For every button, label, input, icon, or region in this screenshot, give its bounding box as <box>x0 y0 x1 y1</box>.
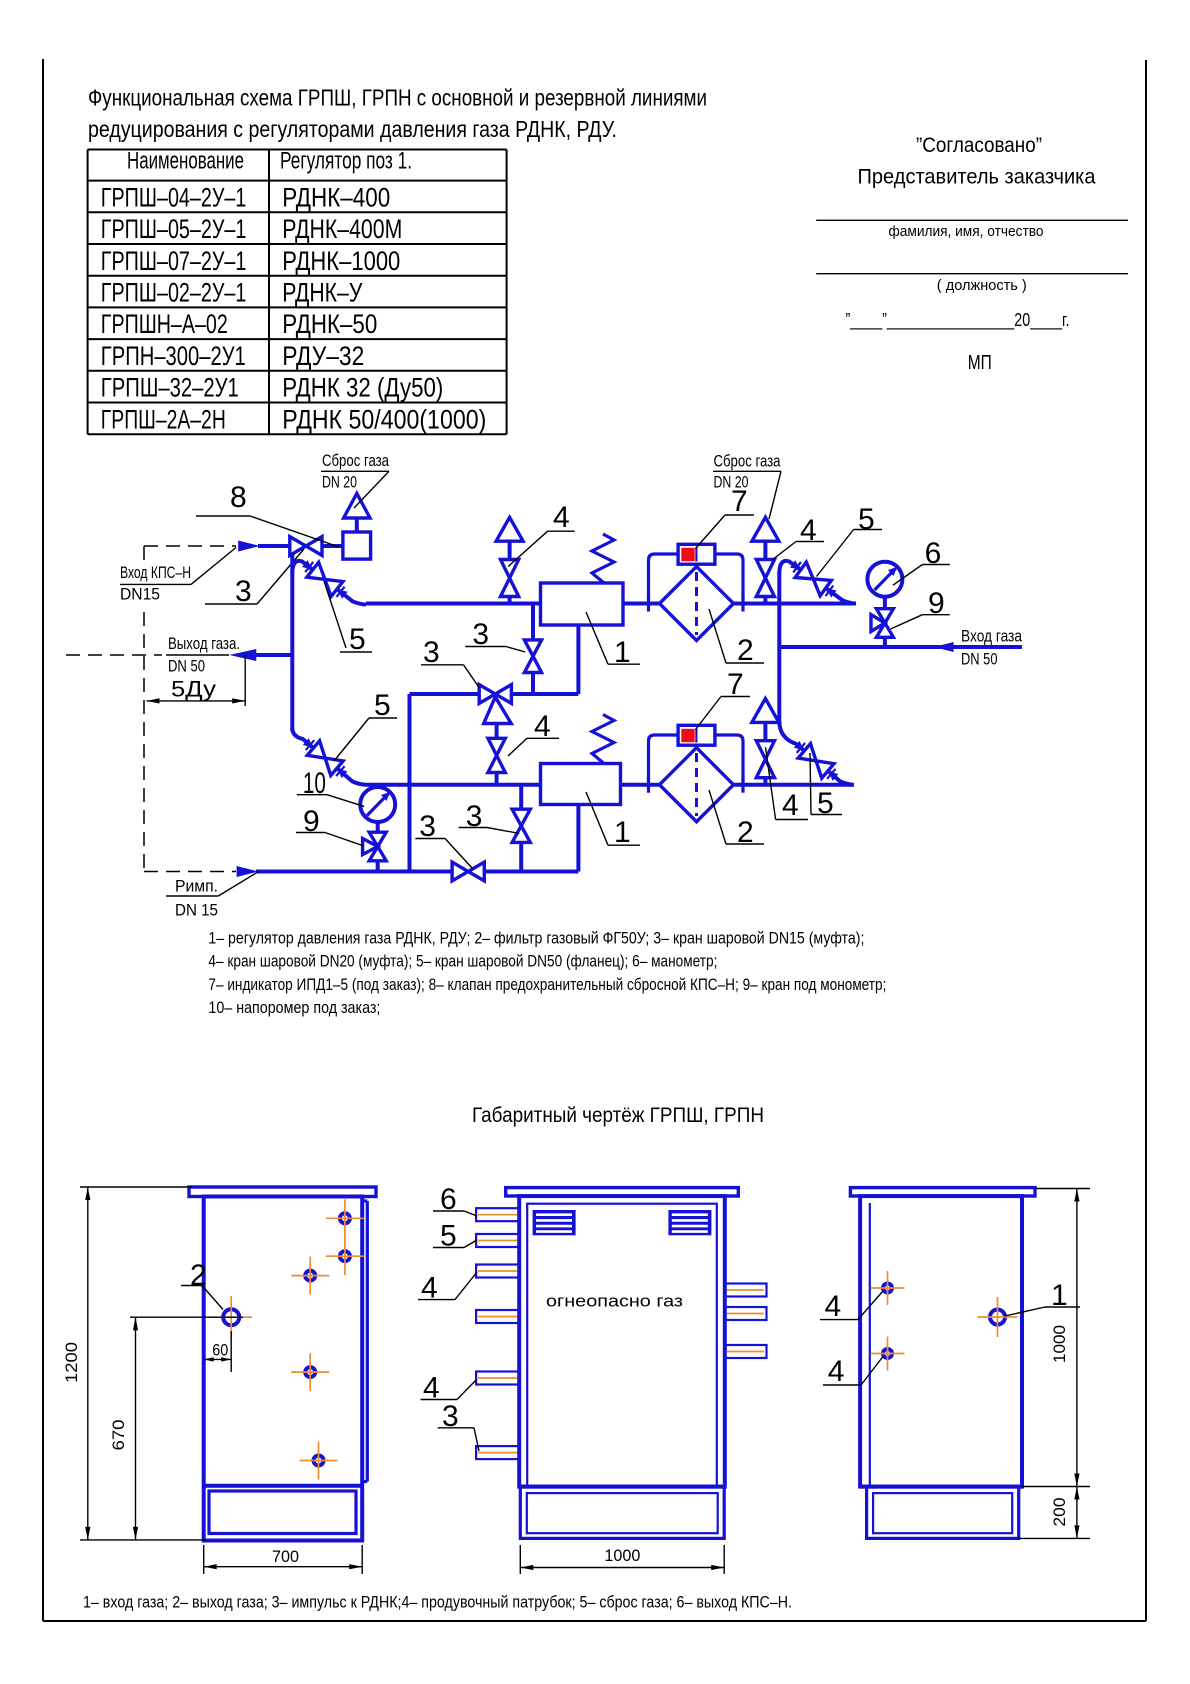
cabinet2 base divider <box>519 1485 725 1489</box>
wire valve4 chain <box>495 724 499 739</box>
svg-text:( должность ): ( должность ) <box>937 278 1027 294</box>
flow arrow impulse <box>237 866 259 877</box>
vent triangle C <box>752 699 779 723</box>
valve 4 B <box>756 560 774 579</box>
regulator 1 lower box <box>541 764 621 805</box>
svg-text:”____”________________20____г.: ”____”________________20____г. <box>846 309 1070 331</box>
svg-text:Представитель заказчика: Представитель заказчика <box>858 166 1096 189</box>
indicator 7 upper divider <box>695 548 697 562</box>
svg-text:ГРПШН–А–02: ГРПШН–А–02 <box>101 309 228 339</box>
svg-text:4: 4 <box>782 789 799 822</box>
wire bottom line <box>256 870 578 874</box>
svg-text:DN15: DN15 <box>120 586 160 604</box>
svg-text:ГРПН–300–2У1: ГРПН–300–2У1 <box>101 341 246 371</box>
svg-text:DN 50: DN 50 <box>168 658 205 676</box>
callout 2 lower <box>726 843 764 845</box>
svg-text:DN 50: DN 50 <box>961 651 998 669</box>
wire top line left <box>366 602 540 606</box>
svg-text:РДНК 32 (Ду50): РДНК 32 (Ду50) <box>282 373 443 403</box>
cabinet3 hole 4a <box>883 1284 892 1293</box>
svg-text:РДУ–32: РДУ–32 <box>282 341 364 371</box>
svg-text:1000: 1000 <box>604 1547 640 1565</box>
callout 3 vert upper <box>465 646 506 648</box>
wire cross riser <box>408 694 412 872</box>
wire left riser <box>290 553 294 731</box>
callout 5 lower-left <box>369 717 397 719</box>
cabinet3 base outer <box>867 1487 1019 1539</box>
valve 4 chain <box>488 738 505 755</box>
border frame left <box>42 59 44 1621</box>
dimension 1000 cabinet2 <box>519 1545 521 1574</box>
vent assembly B stub <box>763 597 767 604</box>
svg-text:1: 1 <box>614 816 631 849</box>
svg-text:1000: 1000 <box>1051 1325 1069 1363</box>
cabinet2 louver right <box>668 1210 711 1235</box>
filter 2 lower diamond <box>660 748 734 822</box>
svg-text:Функциональная схема ГРПШ, ГРП: Функциональная схема ГРПШ, ГРПН с основн… <box>88 85 707 111</box>
filter 2 lower bypass <box>649 735 744 781</box>
valve 3 bottom <box>452 862 468 881</box>
svg-text:Наименование: Наименование <box>127 148 244 175</box>
svg-text:Габаритный чертёж ГРПШ, ГРПН: Габаритный чертёж ГРПШ, ГРПН <box>472 1103 764 1127</box>
svg-text:4: 4 <box>825 1290 842 1323</box>
cabinet2 louver left <box>533 1210 576 1235</box>
cabinet1 door edge <box>366 1201 369 1482</box>
valve 3 vertical lower <box>512 809 530 826</box>
callout 2 cabinet1 <box>181 1285 202 1287</box>
manometer 10 <box>360 787 395 822</box>
border frame right <box>1145 60 1147 1621</box>
wire regulator2 outlet drop <box>576 805 580 872</box>
wire manometer 6 stem <box>883 596 887 647</box>
valve 3 vertical upper <box>524 640 541 656</box>
svg-text:ГРПШ–02–2У–1: ГРПШ–02–2У–1 <box>101 278 247 308</box>
cabinet2 base inner <box>527 1493 718 1533</box>
dimension 5Du <box>244 655 246 706</box>
callout 8 <box>196 515 250 517</box>
indicator 7 upper box <box>678 544 715 564</box>
mask Vhod KPS-N <box>114 560 196 604</box>
flow arrow KPS inlet <box>238 541 260 552</box>
svg-text:РДНК 50/400(1000): РДНК 50/400(1000) <box>282 404 486 434</box>
cabinet1 base divider <box>204 1484 363 1488</box>
valve 5 lower-right flanged <box>779 721 854 785</box>
svg-text:5: 5 <box>349 623 366 656</box>
svg-text:фамилия, имя, отчество: фамилия, имя, отчество <box>889 224 1044 240</box>
vent assembly C stub <box>763 778 767 785</box>
valve 3 KPS ball valve <box>290 537 306 556</box>
svg-text:ГРПШ–04–2У–1: ГРПШ–04–2У–1 <box>101 182 247 212</box>
cabinet3 hinge line <box>869 1203 871 1487</box>
filter 2 lower dash <box>695 753 698 816</box>
wire KPS vent stub <box>355 517 359 532</box>
svg-text:10– напоромер под заказ;: 10– напоромер под заказ; <box>208 998 380 1017</box>
border frame bottom <box>43 1620 1146 1622</box>
svg-text:ГРПШ–32–2У1: ГРПШ–32–2У1 <box>101 373 239 403</box>
cabinet1 hole low <box>314 1456 324 1466</box>
callout 3 bottom <box>415 838 445 840</box>
valve 9 right <box>876 609 893 623</box>
wire top line filter to end <box>734 602 857 606</box>
spring regulator 1 lower <box>592 715 614 764</box>
svg-text:1– вход газа; 2– выход газа; 3: 1– вход газа; 2– выход газа; 3– импульс … <box>83 1593 792 1612</box>
wire input line <box>779 645 1022 649</box>
svg-text:3: 3 <box>423 636 440 669</box>
cabinet1 hole 2 big <box>223 1309 239 1325</box>
svg-text:4: 4 <box>553 501 570 534</box>
wire KPS line <box>258 544 344 548</box>
flange tick lower right <box>741 777 744 793</box>
svg-text:РДНК–400М: РДНК–400М <box>282 214 402 244</box>
svg-text:4– кран шаровой DN20 (муфта);: 4– кран шаровой DN20 (муфта); 5– кран ша… <box>208 952 717 971</box>
wire middle line left <box>366 783 540 787</box>
wire regulator1 to filter <box>623 602 660 606</box>
callout 5 lower-right <box>810 753 811 815</box>
wire dashed outlet <box>66 654 162 656</box>
svg-text:Вход КПС–Н: Вход КПС–Н <box>120 564 191 582</box>
flange tick lower left <box>647 777 650 793</box>
svg-text:4: 4 <box>828 1355 845 1388</box>
svg-text:670: 670 <box>110 1420 128 1451</box>
svg-text:DN 15: DN 15 <box>175 902 218 920</box>
relief valve KPS-N box 8 <box>343 532 371 559</box>
valve 4 A <box>501 560 519 579</box>
callout 3 vert lower <box>459 827 487 829</box>
wire dashed KPS inlet <box>144 545 236 547</box>
valve 4 C <box>756 741 774 760</box>
callout 3 upper-left <box>205 603 257 605</box>
cabinet2 cap <box>506 1188 739 1196</box>
valve 9 left <box>369 832 386 846</box>
callout 9 left <box>296 832 325 834</box>
svg-text:редуцирования с регуляторами д: редуцирования с регуляторами давления га… <box>88 116 617 142</box>
wire regulator1 drop <box>531 604 535 641</box>
callout 5 cabinet2 <box>433 1247 464 1249</box>
svg-text:200: 200 <box>1051 1498 1069 1527</box>
callout 4 B <box>796 541 824 543</box>
dimension 1000 cabinet3 <box>1035 1188 1090 1190</box>
svg-text:5: 5 <box>858 503 875 536</box>
callout 4 lower-right <box>766 747 776 819</box>
wire valve3 lower drop <box>519 785 523 810</box>
svg-text:60: 60 <box>212 1342 228 1360</box>
callout 10 <box>297 794 327 796</box>
cabinet3 cap <box>850 1188 1035 1196</box>
vent triangle A <box>496 517 523 541</box>
svg-text:DN 20: DN 20 <box>714 474 749 492</box>
callout 1 upper <box>608 663 640 665</box>
svg-text:5: 5 <box>374 689 391 722</box>
svg-text:1200: 1200 <box>63 1342 81 1383</box>
cabinet2 body inner <box>527 1204 717 1487</box>
callout 4 chain <box>527 737 559 739</box>
dimension 1200 <box>80 1186 192 1188</box>
svg-text:РДНК–400: РДНК–400 <box>282 182 390 212</box>
svg-text:2: 2 <box>737 634 754 667</box>
dimension 200 cabinet3 <box>1019 1537 1090 1539</box>
callout 4b cabinet2 <box>421 1399 457 1401</box>
svg-text:Регулятор поз 1.: Регулятор поз 1. <box>280 148 412 175</box>
cabinet2 base outer <box>520 1487 724 1539</box>
wire cross line <box>410 692 579 696</box>
callout 9 right <box>922 614 949 616</box>
callout Rimp <box>166 895 218 897</box>
svg-text:700: 700 <box>272 1548 299 1566</box>
wire dashed boundary vertical <box>143 546 145 872</box>
vent triangle B <box>752 517 779 541</box>
cabinet1 hole top2 <box>340 1251 350 1261</box>
callout 5 upper-left <box>324 581 346 648</box>
callout 1 cabinet3 <box>1045 1306 1080 1308</box>
flange tick upper right <box>741 596 744 612</box>
callout 7 lower <box>721 696 750 698</box>
dimension 60 <box>230 1331 232 1372</box>
cabinet1 hole mid1 <box>305 1271 315 1281</box>
underline Vyhod gaza <box>166 654 229 656</box>
cabinet2 body outer <box>519 1196 725 1487</box>
signature line 1 <box>816 219 1128 221</box>
cabinet3 body <box>860 1196 1022 1487</box>
valve 5 lower-left flanged <box>292 728 366 785</box>
cabinet1 base inner <box>209 1491 356 1534</box>
indicator 7 lower red <box>681 729 694 742</box>
callout 3 three-way <box>421 664 464 666</box>
cabinet1 body <box>204 1197 363 1541</box>
cabinet3 base divider <box>860 1485 1022 1489</box>
flow arrow input <box>934 642 954 652</box>
wire right riser <box>777 572 781 723</box>
cabinet2 stubs left <box>476 1208 519 1221</box>
svg-text:Римп.: Римп. <box>175 878 218 896</box>
spring regulator 1 upper <box>592 534 614 583</box>
svg-text:Сброс газа: Сброс газа <box>322 452 390 470</box>
cabinet1 hole mid2 <box>305 1367 315 1377</box>
callout 5 upper-right <box>854 529 882 531</box>
wire manometer 10 stem <box>376 822 380 833</box>
cabinet3 hole 4b <box>883 1349 892 1358</box>
callout 3 cabinet2 <box>438 1427 474 1429</box>
manometer 6 <box>867 562 902 597</box>
indicator 7 lower box <box>678 725 715 745</box>
callout 6 <box>922 564 949 566</box>
cabinet1 hole top1 <box>340 1213 350 1223</box>
cabinet2 stubs right <box>725 1284 767 1297</box>
callout 1 lower <box>608 844 640 846</box>
svg-text:РДНК–У: РДНК–У <box>282 278 362 308</box>
wire regulator2 to filter <box>621 783 660 787</box>
svg-text:8: 8 <box>230 481 247 514</box>
callout 4a cabinet3 <box>820 1319 858 1321</box>
svg-text:Сброс газа: Сброс газа <box>714 453 782 471</box>
flow arrow outlet <box>229 649 256 661</box>
callout Sbros gaza left <box>321 470 389 472</box>
filter 2 upper diamond <box>660 567 734 641</box>
vent triangle KPS <box>344 494 370 519</box>
flange tick upper left <box>647 596 650 612</box>
wire regulator1 outlet drop <box>576 625 580 694</box>
svg-text:Выход газа.: Выход газа. <box>168 635 240 653</box>
valve 3 three-way <box>479 685 495 704</box>
callout 6 cabinet2 <box>433 1210 464 1212</box>
wire lower line filter to end <box>734 783 854 787</box>
svg-text:ГРПШ–2А–2Н: ГРПШ–2А–2Н <box>101 404 226 434</box>
svg-text:3: 3 <box>235 575 252 608</box>
svg-text:5Ду: 5Ду <box>171 677 216 702</box>
filter 2 upper bypass <box>649 554 744 600</box>
cabinet3 hole 1 <box>990 1310 1005 1325</box>
callout Vhod KPS-N <box>120 583 191 585</box>
svg-text:ГРПШ–05–2У–1: ГРПШ–05–2У–1 <box>101 214 247 244</box>
callout 2 upper <box>726 662 764 664</box>
svg-text:7– индикатор ИПД1–5 (под заказ: 7– индикатор ИПД1–5 (под заказ); 8– клап… <box>208 975 886 994</box>
svg-text:Вход газа: Вход газа <box>961 628 1023 646</box>
cabinet3 base inner <box>873 1493 1012 1533</box>
svg-text:1– регулятор давления газа РДН: 1– регулятор давления газа РДНК, РДУ; 2–… <box>208 929 864 948</box>
svg-text:МП: МП <box>968 351 992 374</box>
cabinet1 cap <box>189 1187 376 1197</box>
filter 2 upper dash <box>695 572 698 635</box>
signature line 2 <box>816 273 1128 275</box>
dimension 700 <box>203 1545 205 1574</box>
svg-text:”Согласовано”: ”Согласовано” <box>916 134 1042 157</box>
svg-text:РДНК–1000: РДНК–1000 <box>282 246 400 276</box>
callout 4a cabinet2 <box>418 1299 455 1301</box>
callout 7 upper <box>725 514 754 516</box>
wire dashed impulse <box>144 871 236 873</box>
svg-text:РДНК–50: РДНК–50 <box>282 309 377 339</box>
callout Sbros gaza right <box>713 470 781 472</box>
vent assembly A stub <box>508 597 512 604</box>
wire outlet <box>249 653 294 657</box>
svg-text:ГРПШ–07–2У–1: ГРПШ–07–2У–1 <box>101 246 247 276</box>
dimension 670 <box>130 1316 243 1318</box>
regulator 1 upper box <box>541 583 624 625</box>
callout 4b cabinet3 <box>823 1384 861 1386</box>
svg-text:DN 20: DN 20 <box>322 474 357 492</box>
valve 5 upper-left flanged <box>292 561 366 605</box>
svg-text:огнеопасно газ: огнеопасно газ <box>546 1292 683 1311</box>
indicator 7 upper red <box>681 548 694 561</box>
callout 4 A <box>548 530 575 532</box>
table grid <box>88 149 507 151</box>
valve 5 upper-right flanged <box>779 561 856 604</box>
indicator 7 lower divider <box>695 729 697 743</box>
